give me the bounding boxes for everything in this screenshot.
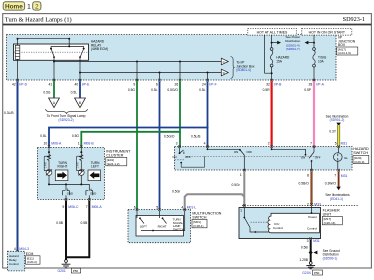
svg-text:Control: Control bbox=[9, 262, 19, 266]
svg-text:0.5P: 0.5P bbox=[304, 88, 312, 92]
turn right indicator circuit bbox=[44, 148, 52, 185]
wire 0.5G pin 41 to triangle A bbox=[53, 81, 55, 98]
label TURN LEFT bbox=[91, 161, 101, 169]
svg-text:(C18-1): (C18-1) bbox=[193, 224, 203, 228]
svg-text:(C20-2): (C20-2) bbox=[27, 260, 37, 264]
wire 0.5G pin 9 to MF switch pin 6 bbox=[136, 81, 138, 209]
svg-text:6: 6 bbox=[134, 205, 136, 209]
pin label 42 I/P-D bbox=[12, 83, 28, 87]
svg-text:0.5L: 0.5L bbox=[151, 88, 158, 92]
cluster bottom pin label 9 M06-C bbox=[62, 205, 79, 209]
svg-text:GND: GND bbox=[67, 191, 73, 195]
svg-text:Home: Home bbox=[5, 4, 23, 11]
ECM box hazard relay control bbox=[8, 251, 25, 271]
pin 32 marker bbox=[270, 79, 272, 81]
svg-text:1: 1 bbox=[27, 4, 31, 11]
svg-text:I/P-A: I/P-A bbox=[316, 83, 324, 87]
svg-text:CLUSTER: CLUSTER bbox=[106, 153, 124, 157]
svg-text:1: 1 bbox=[78, 142, 80, 146]
pin 41 marker bbox=[53, 79, 55, 81]
svg-text:0.5R: 0.5R bbox=[263, 88, 271, 92]
svg-text:0.5L/B: 0.5L/B bbox=[191, 134, 201, 138]
ground G201 bbox=[58, 260, 81, 273]
svg-text:26: 26 bbox=[175, 83, 179, 87]
svg-text:I/P-F: I/P-F bbox=[209, 83, 216, 87]
svg-text:UNIT: UNIT bbox=[323, 212, 332, 216]
wire 0.5B flasher ground bbox=[310, 240, 312, 262]
wire 0.5Gr hazard to MF switch and flasher bbox=[185, 171, 245, 209]
diode D bbox=[221, 69, 228, 76]
svg-text:9: 9 bbox=[62, 205, 64, 209]
hazard switch ILL lamp bbox=[334, 148, 349, 170]
cluster bottom pin marker 9 bbox=[65, 198, 67, 200]
svg-text:ON: ON bbox=[172, 155, 176, 159]
svg-text:42: 42 bbox=[12, 83, 16, 87]
svg-text:4: 4 bbox=[204, 141, 206, 145]
svg-text:OFF: OFF bbox=[185, 155, 191, 159]
svg-text:0.5Gr: 0.5Gr bbox=[232, 183, 241, 187]
connector M33 dashed line bbox=[242, 205, 359, 207]
wire 0.3Y illumination bbox=[337, 125, 340, 147]
hazard bottom pin label 7 M31 bbox=[334, 174, 347, 179]
pin 28 marker bbox=[313, 79, 315, 81]
svg-text:0.5B: 0.5B bbox=[301, 245, 309, 249]
ECM pin label 4 M04-3 bbox=[14, 247, 29, 251]
triangle A to front turn signal lamp bbox=[49, 98, 60, 108]
cluster ground bus bbox=[48, 183, 89, 190]
svg-text:6: 6 bbox=[156, 83, 158, 87]
flasher switch symbol bbox=[243, 208, 268, 233]
svg-text:0.5B: 0.5B bbox=[56, 221, 64, 225]
svg-text:1: 1 bbox=[240, 173, 242, 177]
pin 9 marker bbox=[136, 79, 138, 81]
svg-text:Control: Control bbox=[307, 227, 317, 231]
svg-text:(SD901-2): (SD901-2) bbox=[330, 118, 345, 122]
pin label 40 I/P-E bbox=[75, 83, 91, 87]
hazard switch cell 2 bbox=[207, 148, 253, 170]
svg-text:ILL: ILL bbox=[344, 156, 348, 160]
svg-text:2: 2 bbox=[307, 202, 309, 206]
svg-text:3: 3 bbox=[307, 239, 309, 243]
connector pin 2 M33 bbox=[307, 202, 321, 206]
flasher bottom pin label 3 M31 bbox=[307, 239, 320, 243]
svg-text:(C24-1,6): (C24-1,6) bbox=[338, 51, 351, 55]
svg-text:Distribution: Distribution bbox=[285, 39, 300, 43]
label I/P junction box right bbox=[337, 36, 358, 56]
hazard bottom pin marker 8 bbox=[310, 169, 312, 171]
triangle B to front turn signal lamp bbox=[75, 98, 86, 108]
wire 0.3W/O to illuminations bbox=[338, 171, 340, 186]
turn signal switch contacts bbox=[137, 211, 185, 232]
wire bus to diode D bbox=[79, 72, 221, 74]
wire relay contact to pin 40 bbox=[79, 57, 81, 80]
connector pin 1 marker grey wire bbox=[243, 204, 246, 207]
turn signal lamp switch inner box bbox=[136, 216, 184, 237]
svg-text:SWITCH: SWITCH bbox=[353, 151, 368, 155]
pin label 28 I/P-A bbox=[309, 83, 325, 87]
hazard switch label bbox=[353, 147, 369, 164]
svg-text:4: 4 bbox=[181, 205, 183, 209]
turn left arrow icon bbox=[88, 170, 101, 181]
svg-text:(C20-3): (C20-3) bbox=[354, 160, 364, 164]
wire 0.5R pin 32 to hazard switch bbox=[271, 81, 273, 146]
svg-text:(ED41-1): (ED41-1) bbox=[330, 197, 343, 201]
wire relay contact to pin 41 bbox=[53, 57, 55, 80]
svg-text:5: 5 bbox=[156, 205, 158, 209]
svg-text:0.3L/B: 0.3L/B bbox=[4, 111, 14, 115]
wire 0.5B/O hazard to flasher bbox=[310, 171, 312, 204]
svg-text:7: 7 bbox=[334, 174, 336, 178]
see illumination feed bbox=[326, 114, 349, 126]
label HOT IN ON OR START bbox=[302, 28, 352, 35]
svg-text:RIGHT: RIGHT bbox=[58, 165, 68, 169]
brace to I/P junction box bbox=[231, 57, 235, 79]
wire pin 6 drop bbox=[159, 73, 161, 81]
see illuminations arrow bbox=[325, 187, 350, 201]
cluster pin label 1 M06-B bbox=[78, 142, 95, 146]
toolbar page 2 button bbox=[33, 2, 41, 11]
svg-text:(SD923-2): (SD923-2) bbox=[58, 118, 73, 122]
cluster label INSTRUMENT CLUSTER bbox=[106, 149, 131, 166]
svg-text:(C20-14): (C20-14) bbox=[324, 221, 336, 225]
svg-text:ECM: ECM bbox=[26, 252, 34, 256]
wire pin 26 drop bbox=[179, 62, 181, 81]
turn left indicator circuit bbox=[77, 148, 85, 185]
ECM pin marker bbox=[16, 250, 18, 252]
svg-text:41: 41 bbox=[49, 83, 53, 87]
hazard pin 3 marker bbox=[178, 145, 180, 147]
svg-text:HOT IN ON OR START: HOT IN ON OR START bbox=[309, 30, 346, 34]
ECM label bbox=[26, 252, 41, 264]
svg-text:0.5G: 0.5G bbox=[72, 134, 80, 138]
wire 0.5G horizontal to cluster pin 1 bbox=[81, 131, 180, 147]
svg-text:8: 8 bbox=[307, 174, 309, 178]
svg-text:2: 2 bbox=[268, 141, 270, 145]
label TURN RIGHT bbox=[58, 161, 68, 169]
svg-text:7: 7 bbox=[310, 141, 312, 145]
svg-text:M31: M31 bbox=[341, 141, 348, 145]
svg-text:(E24-1,2): (E24-1,2) bbox=[107, 162, 120, 166]
relay armature bbox=[50, 38, 85, 58]
wire power feed vertical to relay bus bbox=[265, 35, 272, 74]
I/P junction box region (large blue dashed box) bbox=[7, 35, 337, 80]
hazard bottom pin marker 6 bbox=[337, 169, 339, 171]
svg-text:24: 24 bbox=[202, 83, 206, 87]
pin 6 marker bbox=[158, 79, 160, 81]
wire relay coil to pin 42 bbox=[17, 59, 19, 80]
hazard switch box bbox=[175, 147, 353, 171]
hazard switch pin label 5 M31 bbox=[335, 141, 348, 145]
label to front turn signal lamp bbox=[47, 114, 86, 122]
svg-text:(SD509-1): (SD509-1) bbox=[323, 256, 338, 260]
wire pin 9 drop bbox=[136, 62, 138, 81]
wire 0.5L pin 40 to triangle B bbox=[79, 81, 81, 98]
svg-text:5: 5 bbox=[335, 141, 337, 145]
hazard bottom pin marker 1 bbox=[243, 169, 245, 171]
svg-text:0.5B: 0.5B bbox=[81, 221, 89, 225]
svg-text:1: 1 bbox=[240, 209, 242, 213]
svg-text:I/P-D: I/P-D bbox=[19, 83, 27, 87]
svg-text:9: 9 bbox=[133, 83, 135, 87]
wire 0.3L/B navy from pin 42 to ECM bbox=[17, 81, 19, 250]
pin 40 marker bbox=[79, 79, 81, 81]
wire bus to diode C bbox=[53, 61, 221, 63]
hazard switch cell 3 bbox=[271, 148, 321, 170]
svg-text:B: B bbox=[79, 101, 81, 105]
fuse F2 T/SIG 10A bbox=[313, 35, 327, 80]
svg-text:M04-3: M04-3 bbox=[19, 247, 29, 251]
multifunction switch label bbox=[192, 211, 222, 227]
cluster pin 10 marker bbox=[48, 145, 50, 147]
cluster pin label 10 M06-A bbox=[44, 142, 63, 146]
svg-text:7: 7 bbox=[86, 205, 88, 209]
svg-text:OFF: OFF bbox=[246, 150, 252, 154]
svg-text:15A: 15A bbox=[276, 60, 283, 64]
pin 42 marker bbox=[16, 79, 18, 81]
svg-text:0.5G: 0.5G bbox=[43, 90, 51, 94]
turn right arrow icon bbox=[55, 170, 68, 181]
pin 26 marker bbox=[179, 79, 181, 81]
svg-text:P50: P50 bbox=[73, 269, 79, 273]
svg-text:40: 40 bbox=[75, 83, 79, 87]
svg-text:32: 32 bbox=[266, 83, 270, 87]
svg-text:10A: 10A bbox=[318, 60, 325, 64]
flasher power feed wire bbox=[311, 206, 313, 214]
svg-text:M06-A: M06-A bbox=[51, 142, 62, 146]
svg-text:(4WB ECM): (4WB ECM) bbox=[91, 47, 108, 51]
flasher unit box bbox=[239, 208, 321, 239]
wire 0.5B right ground wire bbox=[66, 201, 89, 258]
fuse F1 HAZARD 15A bbox=[270, 35, 290, 80]
svg-text:0.3W/O: 0.3W/O bbox=[325, 181, 337, 185]
MF pin 4 marker bbox=[184, 208, 186, 210]
svg-text:1.25B: 1.25B bbox=[299, 258, 308, 262]
svg-text:10: 10 bbox=[44, 142, 48, 146]
svg-text:0.5G/O: 0.5G/O bbox=[167, 88, 178, 92]
svg-text:SD923-1: SD923-1 bbox=[343, 16, 365, 23]
wire 0.5G/O pin 26 to hazard switch pin 3 bbox=[179, 81, 181, 146]
hazard pin 2 marker bbox=[270, 145, 272, 147]
svg-text:0.5L: 0.5L bbox=[199, 88, 206, 92]
cluster pin 1 marker bbox=[80, 145, 82, 147]
svg-text:P50: P50 bbox=[314, 271, 320, 275]
cluster bottom pin label 7 M06-A bbox=[86, 205, 103, 209]
label C/U Control bbox=[273, 222, 283, 230]
svg-text:SWITCH: SWITCH bbox=[192, 215, 207, 219]
MF switch pin label 4 M01-L bbox=[181, 205, 196, 209]
hazard pin 5 marker bbox=[337, 145, 339, 147]
hazard switch linkage dashed line bbox=[186, 156, 318, 158]
svg-text:4: 4 bbox=[14, 247, 16, 251]
MF pin 6 marker bbox=[136, 208, 138, 210]
svg-text:Power: Power bbox=[308, 215, 317, 219]
svg-text:M33: M33 bbox=[314, 202, 321, 206]
relay label bbox=[91, 40, 108, 52]
svg-text:1.4W: 1.4W bbox=[77, 162, 80, 168]
svg-text:ON: ON bbox=[301, 156, 305, 160]
label turn signal lamp switch bbox=[173, 217, 184, 231]
label HOT AT ALL TIMES bbox=[248, 28, 296, 35]
svg-text:0.5L: 0.5L bbox=[71, 90, 78, 94]
svg-text:OFF: OFF bbox=[315, 156, 321, 160]
svg-text:LEFT: LEFT bbox=[140, 225, 147, 229]
svg-text:0.5L: 0.5L bbox=[40, 134, 47, 138]
svg-text:G204: G204 bbox=[302, 271, 310, 275]
svg-text:(SD801-7): (SD801-7) bbox=[286, 47, 300, 51]
wire 0.5B left ground wire bbox=[65, 201, 67, 260]
multifunction switch box bbox=[128, 210, 191, 243]
svg-text:I/P-E: I/P-E bbox=[82, 83, 90, 87]
ground G204 bbox=[302, 262, 322, 275]
wire 0.5L pin 6 to MF switch pin 5 bbox=[159, 81, 161, 209]
svg-text:0.5B/O: 0.5B/O bbox=[299, 181, 310, 185]
svg-text:Turn & Hazard Lamps (1): Turn & Hazard Lamps (1) bbox=[5, 17, 72, 24]
svg-text:3: 3 bbox=[176, 141, 178, 145]
svg-text:M01-L: M01-L bbox=[187, 205, 197, 209]
svg-text:1.4W: 1.4W bbox=[44, 162, 47, 168]
cluster GND pin 4 bbox=[86, 188, 96, 200]
svg-text:I/P-B: I/P-B bbox=[274, 83, 282, 87]
svg-text:GND: GND bbox=[90, 191, 96, 195]
svg-text:M06-B: M06-B bbox=[84, 142, 95, 146]
wire relay feed bus bbox=[18, 39, 70, 46]
pin label 24 I/P-F bbox=[202, 83, 217, 87]
wire 0.5L horizontal to cluster pin 10 bbox=[49, 126, 209, 146]
see power distribution arrows bbox=[272, 35, 314, 51]
relay coil bbox=[15, 45, 19, 59]
hazard switch cell 1 bbox=[172, 148, 204, 168]
svg-text:LEFT: LEFT bbox=[91, 165, 99, 169]
flasher unit label bbox=[322, 208, 342, 224]
wire 0.5P pin 28 to hazard switch pin 7 bbox=[313, 81, 315, 146]
flasher bottom pin marker 3 bbox=[310, 237, 312, 239]
svg-text:ON: ON bbox=[234, 150, 238, 154]
instrument cluster box bbox=[37, 148, 104, 200]
svg-text:RIGHT: RIGHT bbox=[158, 225, 167, 229]
brace under triangles bbox=[46, 109, 88, 114]
svg-text:M31: M31 bbox=[341, 174, 348, 178]
svg-text:0.3Y: 0.3Y bbox=[329, 130, 337, 134]
cluster bottom pin marker 7 bbox=[88, 198, 90, 200]
hazard pin 7 marker bbox=[313, 145, 315, 147]
wire 0.5L/B pin 24 to hazard switch pin 4 bbox=[207, 81, 209, 146]
diode C bbox=[221, 58, 228, 65]
svg-text:0.5G: 0.5G bbox=[128, 88, 136, 92]
svg-text:SWITCH: SWITCH bbox=[173, 228, 184, 232]
svg-text:M31: M31 bbox=[313, 239, 320, 243]
cluster GND pin 6 bbox=[63, 188, 73, 200]
svg-text:(SD801-4): (SD801-4) bbox=[236, 68, 251, 72]
svg-text:2: 2 bbox=[35, 4, 39, 11]
label to I/P junction box bbox=[236, 61, 255, 73]
svg-text:Control: Control bbox=[273, 226, 283, 230]
svg-text:28: 28 bbox=[309, 83, 313, 87]
ground splice joint bbox=[309, 249, 340, 260]
wire pin 24 drop bbox=[207, 73, 209, 81]
svg-text:M06-A: M06-A bbox=[92, 205, 103, 209]
flasher inner module box bbox=[268, 213, 320, 233]
toolbar Home button bbox=[3, 2, 24, 11]
relay K1 hazard relay box bbox=[14, 44, 89, 60]
svg-text:BOX: BOX bbox=[338, 43, 346, 47]
MF pin 5 marker bbox=[158, 208, 160, 210]
svg-text:G201: G201 bbox=[58, 269, 66, 273]
pin 24 marker bbox=[206, 79, 208, 81]
svg-text:M06-C: M06-C bbox=[68, 205, 79, 209]
hazard pin 4 marker bbox=[206, 145, 208, 147]
svg-text:0.5G/O: 0.5G/O bbox=[164, 134, 175, 138]
pin label 32 I/P-B bbox=[266, 83, 282, 87]
svg-text:HOT AT ALL TIMES: HOT AT ALL TIMES bbox=[257, 30, 288, 34]
svg-text:0.5Gr: 0.5Gr bbox=[172, 190, 181, 194]
